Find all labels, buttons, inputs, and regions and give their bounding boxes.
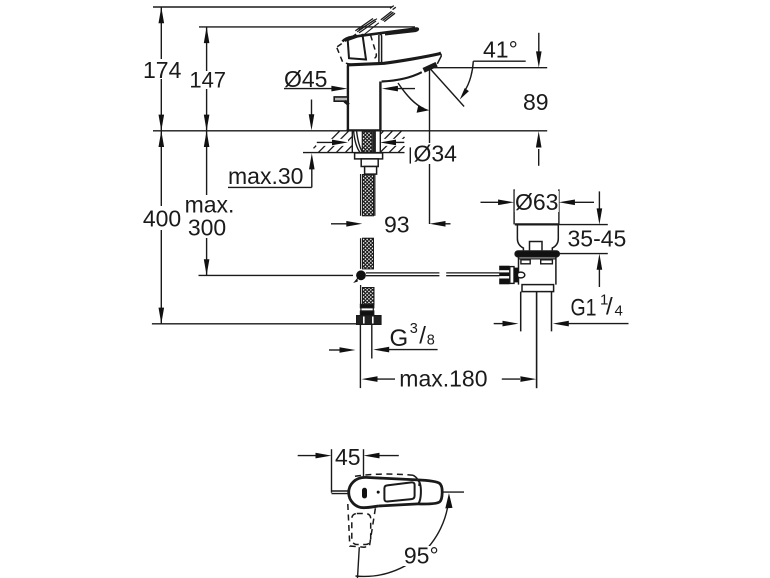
horizontal pull rod: [366, 273, 500, 276]
handle top view body: [349, 477, 443, 507]
dimension max30: [228, 167, 312, 187]
braided hose segment 2: [363, 175, 374, 216]
svg-text:3: 3: [410, 321, 418, 337]
svg-text:/: /: [606, 294, 613, 321]
label 45: [335, 444, 363, 470]
dimension 400 line: [160, 131, 162, 324]
deck hatch right: [380, 131, 404, 152]
ball joint: [356, 270, 366, 280]
Ø45 arrows: [331, 86, 347, 92]
label 95deg: [402, 543, 442, 569]
inner pipe: [536, 292, 538, 389]
label max300: [182, 192, 238, 241]
svg-text:Ø63: Ø63: [515, 189, 558, 215]
tailpipe walls: [521, 292, 552, 332]
spout underside curve: [382, 72, 422, 81]
label 174: [143, 57, 182, 83]
dimension G1 1/4: [494, 323, 629, 325]
deck bottom line: [303, 152, 405, 154]
top flange: [515, 223, 559, 225]
dimension 93: [331, 223, 451, 225]
body right edge: [379, 82, 381, 131]
dimension 45: [298, 449, 399, 493]
dimension 89 top extension: [430, 33, 548, 166]
svg-text:Ø34: Ø34: [414, 141, 458, 167]
body bottom at deck: [347, 129, 382, 131]
lever rear post: [380, 34, 382, 62]
lever front face solid: [348, 35, 366, 60]
Ø34 label separator: [409, 147, 411, 163]
svg-text:G: G: [390, 325, 409, 352]
o-ring: [515, 251, 559, 257]
body top + spout top thick line: [347, 53, 441, 65]
Ø34 arrows white halo: [316, 139, 405, 146]
inner window: [384, 482, 414, 501]
label 35-45: [566, 225, 630, 251]
Ø34 arrowheads: [332, 140, 348, 146]
handle dot: [377, 491, 380, 494]
handle dashed arcs top: [355, 474, 419, 486]
svg-text:174: 174: [143, 57, 182, 83]
extension line 147 level: [199, 26, 415, 28]
dimension max300 arrows: [204, 131, 210, 276]
deck top line: [153, 130, 547, 132]
small arc arrowhead: [417, 106, 430, 113]
extension line top (lever raised tip level): [153, 6, 392, 8]
lever raised hatched band A: [381, 6, 396, 22]
spout outlet vertical extension line: [429, 68, 431, 224]
dimension 400 arrows: [159, 131, 165, 324]
dimension max180: [375, 378, 520, 380]
label G1 1/4: [568, 290, 628, 322]
svg-text:8: 8: [427, 333, 435, 349]
spout tip + aerator face: [437, 54, 441, 64]
body: [519, 257, 556, 284]
dimension 174 arrows: [159, 7, 165, 131]
svg-text:max.30: max.30: [228, 163, 303, 189]
41 degree diagonal line: [398, 61, 526, 108]
41 deg arc arrowhead: [460, 88, 469, 99]
svg-text:35-45: 35-45: [568, 225, 627, 251]
svg-text:45: 45: [335, 444, 361, 470]
drain: Ø63 dimension: [481, 189, 595, 224]
pop-up rod knob at rear: [334, 97, 348, 101]
label max.180: [398, 365, 494, 391]
grip end: [417, 480, 442, 504]
lever raised dashed outline: [337, 34, 376, 64]
label 147: [188, 68, 228, 93]
flange under deck: [355, 153, 383, 174]
95deg arc extension line: [356, 492, 465, 578]
handle dark bar: [362, 488, 367, 499]
dimension 174 line: [160, 7, 162, 131]
braided hose texture segments: [362, 131, 372, 152]
hose vertical thin walls: [361, 174, 375, 305]
label Ø34: [413, 141, 459, 167]
lever raised hatched band B: [355, 19, 376, 33]
svg-text:/: /: [419, 323, 426, 350]
drain assembly: [499, 224, 559, 388]
svg-text:95°: 95°: [404, 543, 439, 569]
G3/8 dimension: [329, 349, 438, 351]
svg-text:89: 89: [523, 89, 549, 115]
Ø45 right arrow at body right edge: [395, 88, 415, 90]
label 400: [143, 206, 181, 232]
bottom nut: [522, 285, 554, 292]
aerator dark band: [424, 64, 437, 70]
svg-text:300: 300: [188, 215, 226, 241]
braided hose segment 4: [363, 288, 375, 305]
braided hose segment 3: [363, 238, 374, 269]
knurled nut (black with rod slots): [499, 266, 509, 285]
dimension 147 arrows: [204, 27, 210, 131]
handle top view: spout stub: [332, 491, 351, 494]
lift rod hole: [530, 242, 543, 251]
extension line max300 bottom: [199, 274, 354, 276]
faucet body: [347, 53, 442, 131]
shank curved pipes in deck hole: [352, 131, 380, 152]
95 deg arc: [356, 497, 449, 576]
41 deg underline: [473, 60, 525, 62]
hose end fitting: [357, 304, 381, 324]
svg-text:G1: G1: [571, 295, 597, 322]
svg-text:max.180: max.180: [399, 365, 487, 391]
lever solid horizontal: [343, 28, 418, 62]
body left edge: [347, 65, 349, 130]
zero reference line: [442, 491, 464, 493]
dashed handle pointing down: [348, 504, 376, 547]
svg-text:147: 147: [189, 68, 226, 93]
dark rod in deck hole: [373, 131, 376, 152]
label 93: [382, 212, 412, 238]
deck hatch left: [314, 131, 353, 152]
extension line 400 bottom: [152, 323, 357, 325]
svg-text:41°: 41°: [483, 37, 518, 63]
dimension max300 line: [206, 131, 208, 276]
grip separation: [417, 480, 421, 504]
dimension 35-45: [559, 191, 608, 287]
svg-text:400: 400: [143, 206, 181, 232]
41 deg leader arc: [465, 61, 474, 91]
dimension 147 line: [206, 27, 208, 131]
small arc arrow to vertical: [398, 83, 424, 109]
G3/8 pipe below nut: [360, 324, 371, 388]
svg-text:93: 93: [384, 212, 410, 238]
label Ø63: [515, 189, 559, 215]
svg-text:4: 4: [615, 303, 623, 320]
